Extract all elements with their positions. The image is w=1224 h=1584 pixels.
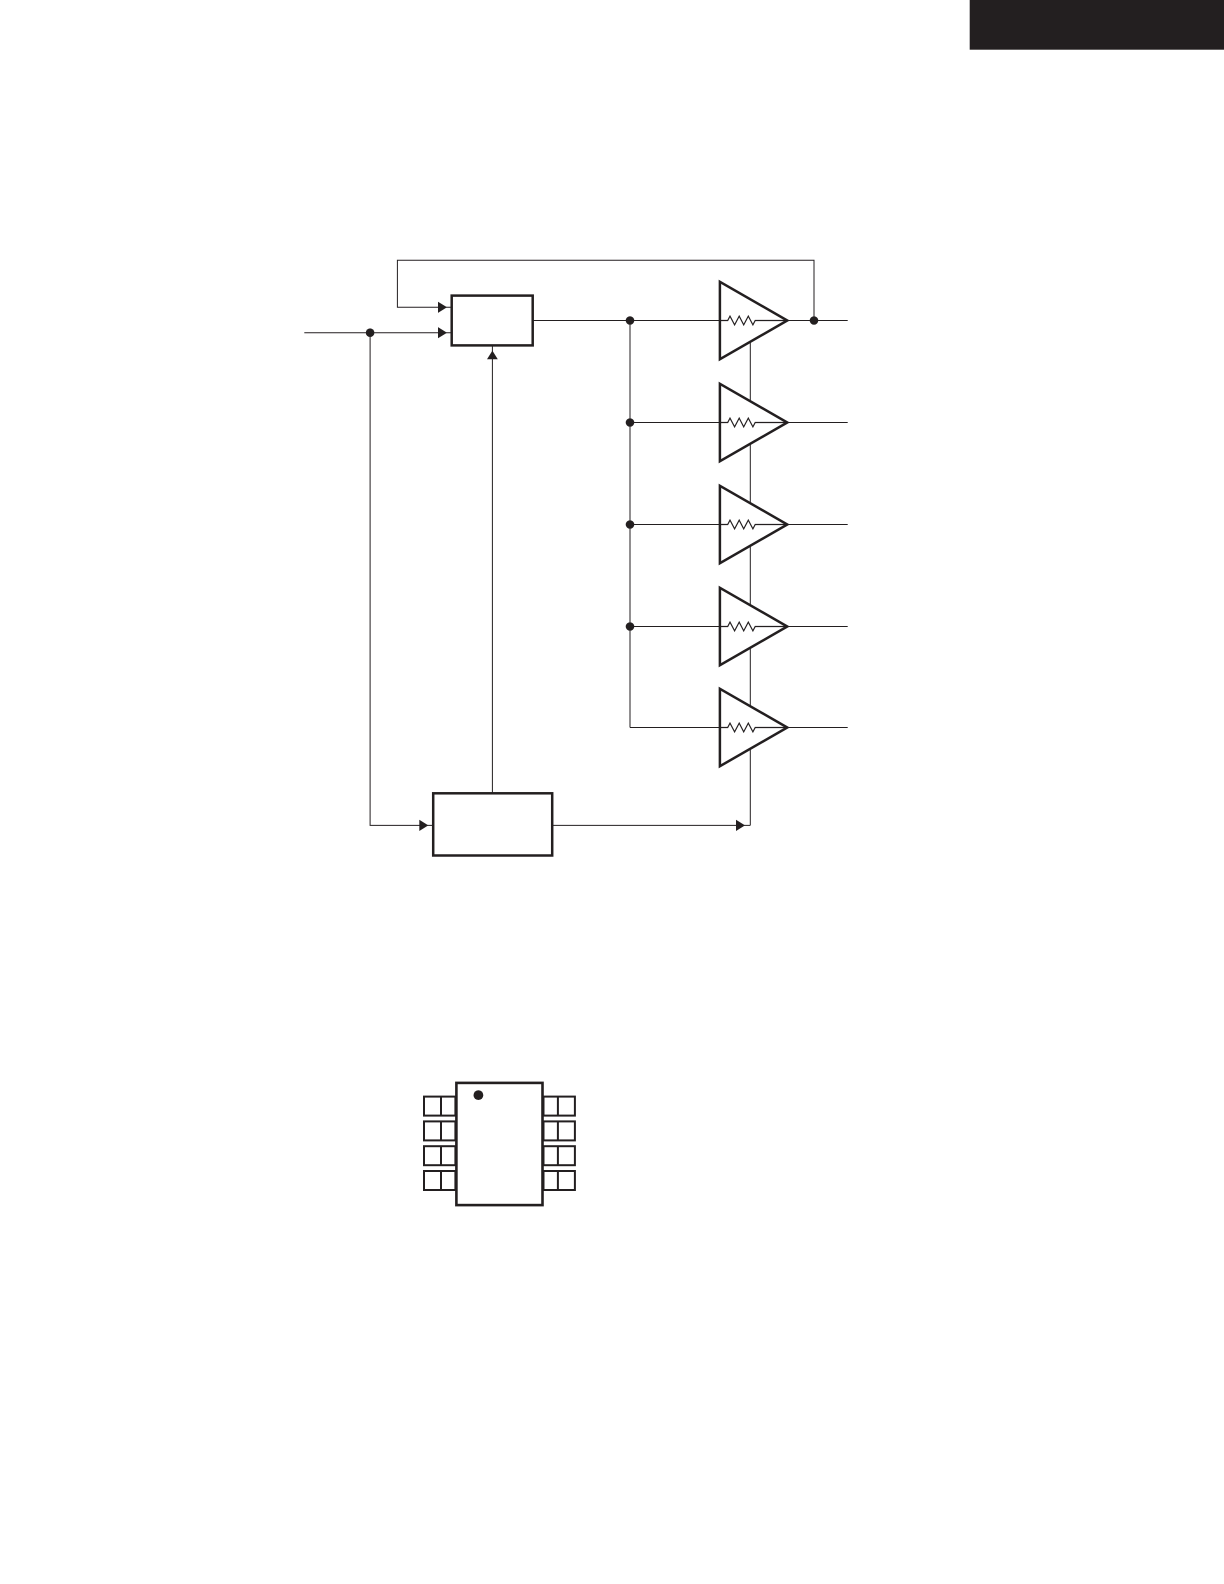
output buffer 4 bbox=[720, 588, 787, 665]
output buffer 3 bbox=[720, 486, 787, 563]
IC package body (8-pin SOIC top view) bbox=[456, 1083, 542, 1205]
buffer 4 triangle bbox=[720, 588, 787, 665]
arrowhead: control block output to bias line bbox=[736, 820, 745, 831]
junction dot: distribution node at buffer 4 input bbox=[626, 622, 635, 631]
wire: buffer 1 output (net OUT1) bbox=[787, 320, 847, 322]
wire: buffer 5 output (net OUT5) bbox=[787, 727, 847, 729]
pin 3 (left, row 3) bbox=[424, 1146, 455, 1165]
pin 7 (right, row 2) bbox=[544, 1121, 575, 1140]
wire: control block output to bias line bbox=[552, 824, 750, 826]
wire: PLL block output to distribution node bbox=[533, 320, 630, 322]
wire: buffer 1 input bbox=[630, 320, 720, 322]
pin 6 (right, row 3) bbox=[544, 1146, 575, 1165]
buffer 1 internal series resistor bbox=[720, 316, 787, 325]
junction dot: distribution node at buffer 3 input bbox=[626, 520, 635, 529]
wire: buffer 2 output (net OUT2) bbox=[787, 422, 847, 424]
output buffer 5 bbox=[720, 689, 787, 766]
pin 1 index dot bbox=[474, 1090, 484, 1100]
junction dot: input tap node bbox=[366, 328, 375, 337]
PLL block U1a bbox=[452, 296, 533, 346]
pin 5 (right, row 4) bbox=[544, 1171, 575, 1190]
wire: feedback loop from buffer 1 output to PLL block feedback input (net FB) bbox=[397, 260, 814, 320]
wire: buffer 3 output (net OUT3) bbox=[787, 524, 847, 526]
buffer 5 triangle bbox=[720, 689, 787, 766]
output buffer 1 bbox=[720, 282, 787, 359]
buffer 3 triangle bbox=[720, 486, 787, 563]
pin 8 (right, row 1) bbox=[544, 1097, 575, 1116]
buffer 2 triangle bbox=[720, 384, 787, 461]
header tab (black page banner, top right) bbox=[970, 0, 1224, 50]
buffer 3 internal series resistor bbox=[720, 520, 787, 529]
output buffer 2 bbox=[720, 384, 787, 461]
arrowhead: feedback into PLL block bbox=[438, 302, 447, 313]
junction dot: distribution node at buffer 2 input bbox=[626, 418, 635, 427]
wire: input tap down to control block bbox=[370, 333, 433, 826]
wire: control block up to PLL block bias input bbox=[491, 346, 493, 794]
junction dot: buffer 1 output feedback tap bbox=[810, 316, 819, 325]
wire: buffer 3 input bbox=[630, 524, 720, 526]
wire: bias line from control block output up to buffer bias inputs (net BIAS) bbox=[749, 321, 751, 826]
arrowhead: bias into PLL block (pointing up) bbox=[487, 351, 498, 360]
wire: buffer 4 output (net OUT4) bbox=[787, 626, 847, 628]
wire: vertical distribution bus feeding the five buffers bbox=[629, 321, 631, 728]
wire: buffer 5 input bbox=[630, 727, 720, 729]
wire: buffer 2 input bbox=[630, 422, 720, 424]
buffer 1 triangle bbox=[720, 282, 787, 359]
wire: buffer 4 input bbox=[630, 626, 720, 628]
buffer 2 internal series resistor bbox=[720, 418, 787, 427]
wire: input line into PLL block (net IN) bbox=[304, 332, 451, 334]
pin 1 (left, row 1) bbox=[424, 1097, 455, 1116]
buffer 5 internal series resistor bbox=[720, 723, 787, 732]
junction dot: distribution node at buffer 1 input bbox=[626, 316, 635, 325]
arrowhead: input into control block bbox=[419, 820, 428, 831]
pin 4 (left, row 4) bbox=[424, 1171, 455, 1190]
arrowhead: input into PLL block bbox=[438, 327, 447, 338]
buffer 4 internal series resistor bbox=[720, 622, 787, 631]
control / bias block U1b bbox=[433, 793, 552, 855]
pin 2 (left, row 2) bbox=[424, 1121, 455, 1140]
